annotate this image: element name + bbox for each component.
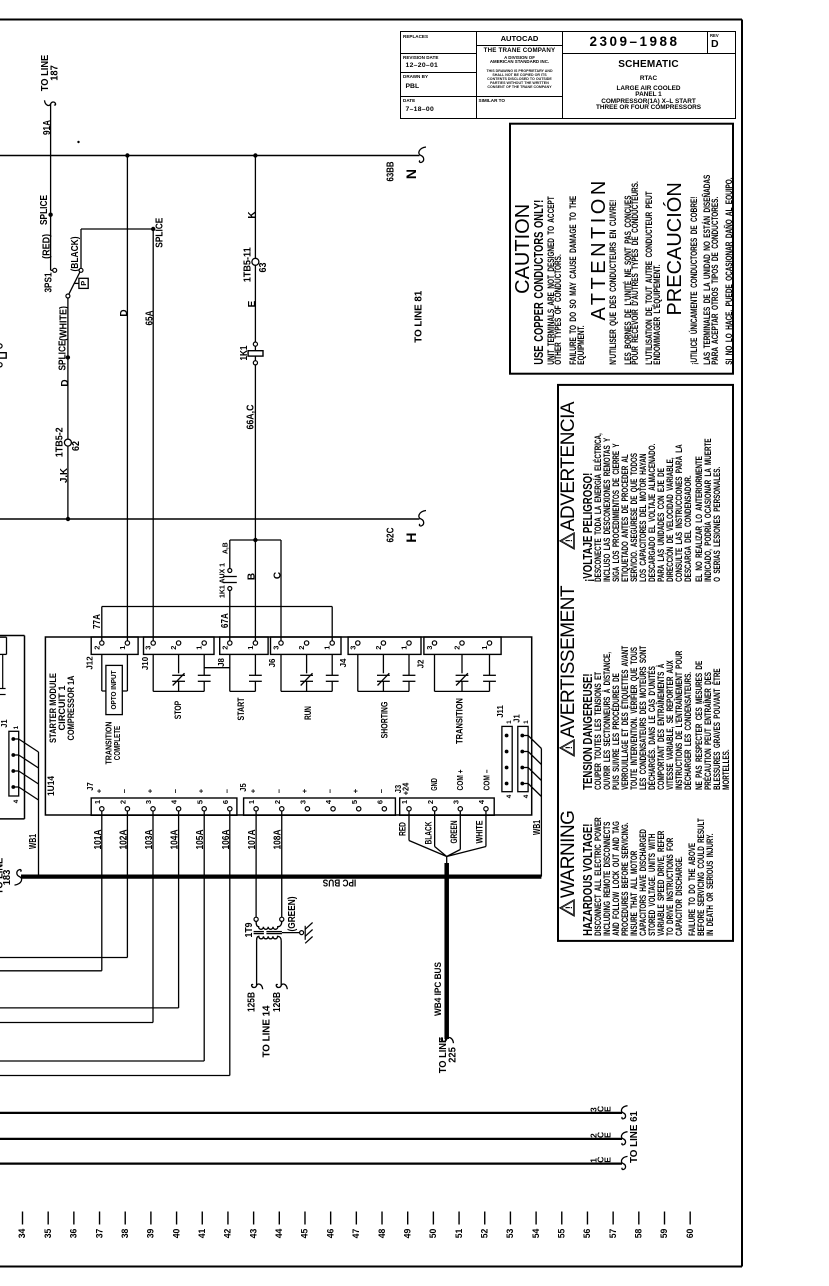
IPC BUS [21,874,541,878]
svg-text:N: N [403,169,419,179]
svg-text:125B: 125B [247,992,258,1012]
svg-text:3: 3 [272,646,281,650]
svg-text:B: B [247,573,258,580]
terminal 1TB5-2 (62) [64,439,71,446]
svg-text:−: − [377,788,386,793]
svg-text:52: 52 [479,1229,489,1239]
svg-text:3: 3 [144,646,153,650]
svg-text:5: 5 [350,800,359,804]
connector J3 [400,798,495,815]
svg-text:1: 1 [118,646,127,650]
splice node on 91A [48,213,52,217]
svg-text:2: 2 [119,800,128,804]
svg-text:187: 187 [49,65,60,81]
svg-text:36: 36 [69,1229,79,1239]
svg-text:A,B: A,B [220,542,229,554]
svg-text:!: ! [564,906,574,909]
P actuator box of 3PS1 [74,282,79,284]
svg-text:55: 55 [557,1229,567,1239]
svg-text:J10: J10 [140,657,150,670]
svg-text:56: 56 [582,1229,592,1239]
svg-text:62: 62 [71,441,82,451]
svg-text:1: 1 [195,646,204,650]
wire H line 62C [0,518,420,520]
wire C to J6-3 [280,540,282,641]
svg-text:−: − [222,788,231,793]
wire N line 63BB [0,155,420,157]
svg-text:1: 1 [400,646,409,650]
svg-text:48: 48 [377,1229,387,1239]
wire 66A,C [254,365,256,540]
svg-text:53: 53 [505,1229,515,1239]
svg-text:STOP: STOP [173,701,183,719]
svg-text:42: 42 [223,1229,233,1239]
svg-text:65A: 65A [144,311,155,326]
svg-text:+: + [249,788,258,793]
warning avertissement advertencia notice box [557,384,734,942]
svg-text:SHORTING: SHORTING [379,702,389,739]
svg-text:126B: 126B [272,992,283,1012]
svg-text:WHITE: WHITE [475,821,485,844]
shorting input circuit under J4 [357,654,359,691]
svg-text:66A,C: 66A,C [246,405,257,430]
svg-text:3: 3 [348,646,357,650]
ground wire from 1T9 [282,932,300,934]
svg-text:1: 1 [323,646,332,650]
wire (WHITE)/D to 1TB5-2 [67,298,69,439]
svg-text:6: 6 [221,800,230,804]
svg-text:51: 51 [454,1229,464,1239]
wire 107A [255,811,257,917]
svg-text:−: − [171,788,180,793]
svg-text:SPLICE: SPLICE [154,217,165,247]
wire 101A [101,811,103,971]
svg-text:E: E [247,300,258,307]
svg-text:+: + [300,788,309,793]
svg-text:1: 1 [93,800,102,804]
svg-text:+: + [351,788,360,793]
svg-text:2: 2 [220,646,229,650]
svg-text:43: 43 [248,1229,258,1239]
svg-text:COM −: COM − [482,769,491,790]
svg-text:OPTO INPUT: OPTO INPUT [109,670,118,709]
node junction D on N line [125,153,129,157]
svg-text:E: E [603,1132,613,1138]
svg-text:40: 40 [171,1229,181,1239]
stop input circuit under J10 [152,654,154,691]
wire J,K to H line [67,446,69,519]
svg-text:J1: J1 [0,719,9,728]
svg-text:62C: 62C [386,528,397,543]
svg-text:1K1: 1K1 [239,345,250,360]
svg-text:4: 4 [477,799,486,804]
drawing frame border [0,19,742,21]
connector J10 [144,637,215,654]
svg-text:50: 50 [428,1229,438,1239]
svg-text:J8: J8 [216,658,226,667]
connector J6 [271,637,342,654]
J3 harness RED/BLACK/GREEN/WHITE [408,811,410,841]
svg-text:4: 4 [523,794,530,798]
wire 104A [178,811,180,1008]
svg-text:(WHITE): (WHITE) [59,306,70,341]
svg-text:1TB5-2: 1TB5-2 [55,427,66,457]
line 3CE [0,1112,622,1114]
svg-text:3: 3 [425,646,434,650]
line 2CE [0,1138,622,1140]
svg-text:J5: J5 [239,783,248,792]
link stop cap to J8-2 [204,667,230,669]
svg-text:J12: J12 [84,656,94,669]
svg-text:39: 39 [146,1229,156,1239]
connector J12 [91,637,138,654]
svg-text:4: 4 [506,794,513,798]
svg-text:RED: RED [398,822,408,836]
svg-text:63BB: 63BB [386,162,397,182]
svg-text:3: 3 [144,800,153,804]
svg-text:+24: +24 [401,782,410,795]
svg-text:1: 1 [247,800,256,804]
node branch 66A,C [253,538,257,542]
cropped starter module (left) [0,635,25,637]
svg-text:+: + [146,788,155,793]
run input circuit under J6 [280,654,282,691]
splice node white/D [66,355,70,359]
svg-text:2: 2 [169,646,178,650]
wire D from N line to J12-1 [126,156,128,641]
svg-text:1U14: 1U14 [46,776,56,796]
wire WB1 right [540,749,542,877]
svg-text:J1: J1 [512,714,521,723]
connector J1 [518,726,528,791]
svg-text:105A: 105A [195,830,206,850]
svg-text:47: 47 [351,1229,361,1239]
svg-text:63: 63 [258,262,269,272]
svg-text:E: E [603,1157,613,1163]
wire 108A [281,811,283,917]
svg-text:2: 2 [273,800,282,804]
svg-text:54: 54 [531,1229,541,1239]
svg-text:107A: 107A [247,830,258,850]
svg-text:2: 2 [453,646,462,650]
svg-text:103A: 103A [144,830,155,850]
wire 77A J12-2 to J6-1 [101,607,103,641]
aux contact 1K1 AUX 1 [229,540,231,568]
wire 125B [256,941,258,986]
wire 91A to line 187 [50,104,52,270]
wire 106A [229,811,231,1076]
svg-text:2: 2 [92,646,101,650]
wire WB1 left [38,752,40,877]
svg-text:COM +: COM + [456,769,465,790]
svg-text:BLACK: BLACK [423,821,433,844]
svg-text:60: 60 [685,1229,695,1239]
svg-text:GREEN: GREEN [449,821,459,844]
svg-text:RUN: RUN [303,706,313,720]
svg-text:34: 34 [17,1229,27,1239]
svg-text:1TB5-11: 1TB5-11 [242,247,253,282]
svg-text:E: E [603,1106,613,1112]
connector J4 [348,637,421,654]
start input circuit under J8 [229,654,231,691]
wire 103A [152,811,154,1023]
WB4 IPC BUS drop [446,857,448,865]
chassis ground [304,926,306,940]
caution attention precaution notice box [509,123,734,375]
title block [400,31,737,119]
svg-text:3PS1: 3PS1 [44,272,55,292]
node junction K on N line [253,153,257,157]
svg-text:3: 3 [299,800,308,804]
svg-text:J11: J11 [496,705,505,718]
svg-text:!: ! [564,746,574,749]
svg-text:GND: GND [430,778,439,791]
svg-text:COMPRESSOR 1A: COMPRESSOR 1A [66,675,76,740]
svg-text:−: − [274,788,283,793]
svg-text:IPC BUS: IPC BUS [322,877,356,888]
cropped coil fragment [0,344,2,348]
svg-text:J6: J6 [267,658,277,667]
module 1U14 starter module box [45,637,531,815]
wire E [254,265,256,342]
svg-text:TO LINE 14: TO LINE 14 [261,1005,272,1057]
svg-text:TO LINE 81: TO LINE 81 [414,290,425,342]
svg-text:1: 1 [13,725,20,729]
cropped connector top-left [0,636,7,638]
wire 102A [126,811,128,958]
svg-text:WB1: WB1 [532,820,543,835]
svg-text:1: 1 [480,646,489,650]
svg-text:59: 59 [659,1229,669,1239]
connector J8 [220,637,268,654]
svg-text:91A: 91A [42,120,53,135]
connector J11 [502,726,512,791]
svg-text:35: 35 [43,1229,53,1239]
svg-text:COMPLETE: COMPLETE [112,726,122,761]
svg-text:D: D [119,309,130,316]
svg-text:TRANSITION: TRANSITION [455,698,465,744]
svg-text:H: H [403,532,419,542]
connector J7 [91,798,237,815]
svg-text:K: K [247,211,258,219]
pressure switch 3PS1 [51,269,53,271]
svg-text:2: 2 [426,800,435,804]
svg-text:108A: 108A [273,830,284,850]
splice node black/65A [151,227,155,231]
svg-text:101A: 101A [93,830,104,850]
harness fan J1 to WB1 [522,735,528,737]
svg-text:1K1 AUX 1: 1K1 AUX 1 [217,563,226,598]
svg-text:3: 3 [451,800,460,804]
transformer 1T9 [254,917,258,921]
line 1CE [0,1162,622,1164]
svg-text:102A: 102A [118,830,129,850]
svg-text:J4: J4 [338,658,348,667]
svg-text:WB1: WB1 [28,834,39,849]
svg-text:J2: J2 [415,659,425,668]
svg-text:4: 4 [170,799,179,804]
svg-text:−: − [120,788,129,793]
wire 65A from splice to J10-3 [152,229,154,641]
node junction J,K on H line [66,517,70,521]
wire K from N line [254,156,256,259]
svg-text:2: 2 [297,646,306,650]
svg-text:183: 183 [2,869,13,885]
svg-text:225: 225 [448,1047,459,1063]
svg-text:38: 38 [120,1229,130,1239]
svg-text:49: 49 [402,1229,412,1239]
svg-text:(RED): (RED) [42,234,53,259]
svg-text:C: C [273,572,284,579]
wire 126B [280,941,282,986]
cropped cap fragment [2,654,4,688]
svg-text:5: 5 [195,800,204,804]
svg-text:46: 46 [325,1229,335,1239]
svg-text:(GREEN): (GREEN) [287,897,298,932]
svg-text:!: ! [564,539,574,542]
svg-text:WB4 IPC BUS: WB4 IPC BUS [433,962,443,1016]
svg-text:4: 4 [13,799,20,803]
svg-text:SPLICE: SPLICE [39,195,50,225]
transition input circuit under J2 [434,654,436,691]
svg-text:67A: 67A [220,613,231,628]
connector J1 (left module) [9,731,19,796]
connector J5 [244,798,396,815]
svg-text:SPLICE: SPLICE [58,340,69,370]
svg-text:41: 41 [197,1229,207,1239]
svg-text:2: 2 [374,646,383,650]
svg-text:(BLACK): (BLACK) [70,237,81,272]
svg-text:1: 1 [400,800,409,804]
wire 105A [203,811,205,1061]
svg-text:1: 1 [246,646,255,650]
svg-text:D: D [60,379,71,386]
svg-text:106A: 106A [221,830,232,850]
svg-text:44: 44 [274,1229,284,1239]
svg-text:37: 37 [94,1229,104,1239]
svg-text:104A: 104A [170,830,181,850]
svg-text:6: 6 [375,800,384,804]
svg-text:1T9: 1T9 [244,922,255,937]
stray ink dot [77,141,79,143]
svg-text:+: + [197,788,206,793]
svg-text:77A: 77A [92,614,103,629]
svg-text:45: 45 [300,1229,310,1239]
relay coil 1K1 [253,342,257,346]
svg-text:58: 58 [634,1229,644,1239]
line number ruler 34-60 [22,1212,24,1225]
svg-text:1: 1 [523,720,530,724]
svg-text:−: − [326,788,335,793]
svg-text:+: + [94,788,103,793]
opto input circuit under J12 [101,654,103,691]
svg-text:4: 4 [324,799,333,804]
svg-text:START: START [236,697,246,720]
terminal 1TB5-11 (63) [252,258,259,265]
svg-text:57: 57 [608,1229,618,1239]
wire B to J8-1 [254,540,256,641]
connector J2 [424,637,501,654]
svg-text:P: P [79,281,88,286]
wire (BLACK) to splice [80,229,82,268]
svg-text:TO LINE 61: TO LINE 61 [629,1111,640,1163]
